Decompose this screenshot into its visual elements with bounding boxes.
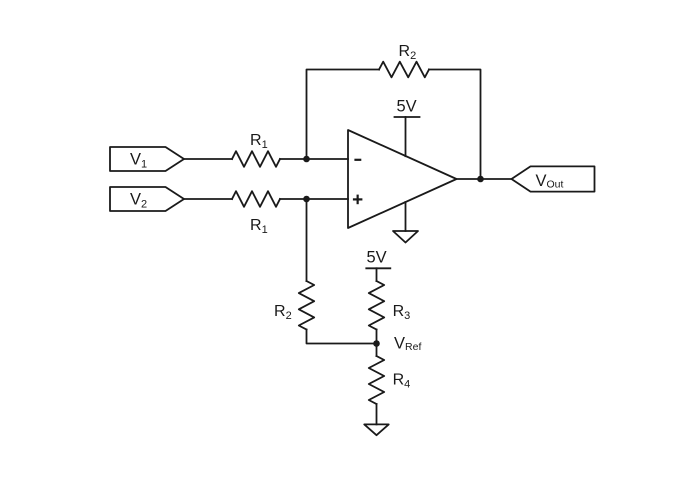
wire VRef node to R4 <box>376 344 378 357</box>
resistor R2 (vertical, to VRef) <box>299 281 314 330</box>
resistor R1 (top, inverting input) <box>232 151 280 167</box>
power 5V supply (divider) <box>366 268 390 281</box>
power 5V supply (op-amp) <box>395 117 420 156</box>
svg-text:5V: 5V <box>367 248 387 266</box>
svg-text:V2: V2 <box>130 191 147 211</box>
pin - (inverting) <box>356 159 361 161</box>
svg-text:R3: R3 <box>393 303 411 322</box>
node VRef junction dot <box>373 340 380 347</box>
wire non-inverting node down to R2 <box>306 199 308 281</box>
svg-text:R2: R2 <box>274 303 292 322</box>
ground (divider) <box>364 424 388 435</box>
resistor R1 (bottom, non-inverting input) <box>232 191 280 207</box>
svg-text:R1: R1 <box>250 217 268 236</box>
svg-text:R1: R1 <box>250 132 268 151</box>
resistor R3 <box>369 281 384 330</box>
ground (op-amp) <box>393 202 418 243</box>
node V2 input flag <box>110 187 184 211</box>
svg-text:R4: R4 <box>393 371 411 390</box>
node VOut output flag <box>512 166 595 191</box>
svg-text:VOut: VOut <box>536 172 564 191</box>
wire feedback top run to output riser <box>429 70 481 180</box>
wire V2 to R1 <box>184 198 232 200</box>
resistor R2 (feedback) <box>379 62 429 78</box>
wire R1 to op-amp non-inverting input <box>280 198 348 200</box>
node junction dot (non-inverting input) <box>303 196 310 203</box>
wire op-amp output <box>457 178 512 180</box>
wire R2 bottom to VRef node <box>307 330 377 344</box>
svg-text:5V: 5V <box>397 98 417 116</box>
svg-text:V1: V1 <box>130 151 147 171</box>
wire V1 to R1 <box>184 158 232 160</box>
node junction dot (inverting input) <box>303 156 310 163</box>
svg-text:R2: R2 <box>399 43 417 62</box>
wire R3 to VRef node <box>376 330 378 344</box>
wire feedback left riser and top run <box>307 70 380 160</box>
wire R4 to ground <box>376 404 378 424</box>
node V1 input flag <box>110 147 184 171</box>
node output junction dot <box>477 176 484 183</box>
svg-text:VRef: VRef <box>394 334 421 353</box>
resistor R4 <box>369 356 384 404</box>
pin + (non-inverting) <box>354 196 361 203</box>
wire R1 to op-amp inverting input <box>280 158 348 160</box>
op-amp U1 <box>348 130 457 228</box>
